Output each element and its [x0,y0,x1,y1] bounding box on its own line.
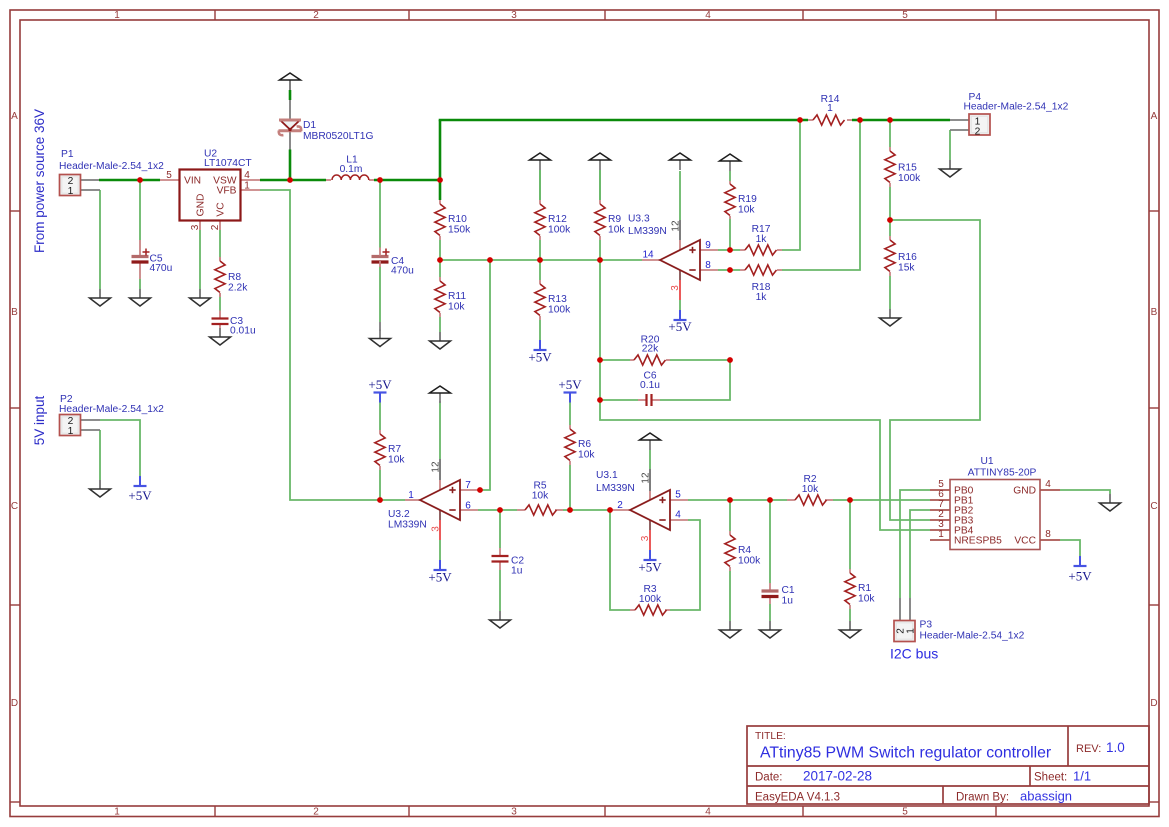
svg-text:C: C [11,501,18,512]
svg-text:R4: R4 [738,545,751,556]
svg-text:4: 4 [705,10,711,21]
svg-text:10k: 10k [448,302,465,313]
svg-text:12: 12 [641,472,652,484]
svg-text:10k: 10k [388,455,405,466]
svg-text:10k: 10k [858,594,875,605]
svg-text:U3.1: U3.1 [596,470,618,481]
svg-text:R1: R1 [858,583,871,594]
svg-text:U3.3: U3.3 [628,214,650,225]
svg-text:3: 3 [431,526,442,532]
svg-text:NRESPB5: NRESPB5 [954,536,1002,547]
svg-text:12: 12 [431,461,442,473]
svg-text:4: 4 [675,510,681,521]
svg-text:12: 12 [671,220,682,232]
svg-text:From power source 36V: From power source 36V [32,109,47,253]
svg-text:C1: C1 [782,585,795,596]
svg-text:1.0: 1.0 [1106,740,1125,755]
svg-text:2.2k: 2.2k [228,283,248,294]
svg-text:6: 6 [465,501,471,512]
svg-text:U1: U1 [980,456,993,467]
svg-text:470u: 470u [391,266,414,277]
svg-text:C: C [1150,501,1157,512]
svg-text:1k: 1k [756,234,768,245]
svg-text:P3: P3 [920,620,933,631]
svg-text:LM339N: LM339N [628,226,667,237]
svg-text:3: 3 [511,807,517,818]
svg-text:R16: R16 [898,252,917,263]
svg-text:5: 5 [902,10,908,21]
svg-text:Header-Male-2.54_1x2: Header-Male-2.54_1x2 [920,631,1025,642]
svg-text:Header-Male-2.54_1x2: Header-Male-2.54_1x2 [59,404,164,415]
svg-text:22k: 22k [642,344,659,355]
svg-text:Sheet:: Sheet: [1034,772,1067,784]
svg-text:+5V: +5V [1068,569,1092,584]
svg-text:B: B [11,307,18,318]
svg-text:7: 7 [465,480,471,491]
svg-text:R19: R19 [738,194,757,205]
svg-text:R8: R8 [228,272,241,283]
svg-text:3: 3 [511,10,517,21]
svg-text:2: 2 [617,500,623,511]
svg-text:R15: R15 [898,163,917,174]
svg-text:100k: 100k [639,594,662,605]
svg-text:R11: R11 [448,291,466,302]
svg-text:0.1u: 0.1u [640,380,660,391]
svg-text:GND: GND [196,194,207,217]
svg-text:LM339N: LM339N [388,520,427,531]
svg-text:4: 4 [705,807,711,818]
svg-text:2: 2 [210,224,221,230]
svg-text:8: 8 [705,260,711,271]
svg-text:100k: 100k [548,305,571,316]
svg-text:9: 9 [705,240,711,251]
svg-text:5V input: 5V input [32,395,47,445]
svg-text:4: 4 [1045,479,1051,490]
svg-text:+5V: +5V [638,560,662,575]
svg-text:15k: 15k [898,263,915,274]
svg-text:8: 8 [1045,529,1051,540]
svg-text:1u: 1u [511,566,523,577]
svg-text:VFB: VFB [217,186,237,197]
svg-text:1: 1 [938,529,944,540]
svg-text:2017-02-28: 2017-02-28 [803,769,872,784]
svg-text:10k: 10k [532,491,549,502]
svg-text:R7: R7 [388,444,401,455]
svg-text:D: D [11,698,18,709]
svg-text:EasyEDA V4.1.3: EasyEDA V4.1.3 [755,792,840,804]
svg-text:10k: 10k [608,225,625,236]
svg-text:B: B [1151,307,1158,318]
svg-text:100k: 100k [548,225,571,236]
svg-text:5: 5 [902,807,908,818]
svg-text:150k: 150k [448,225,471,236]
svg-text:ATtiny85 PWM Switch regulator: ATtiny85 PWM Switch regulator controller [760,745,1051,762]
svg-text:2: 2 [313,807,319,818]
svg-text:Drawn By:: Drawn By: [956,792,1009,804]
svg-text:R6: R6 [578,439,591,450]
svg-text:1: 1 [408,490,414,501]
svg-text:GND: GND [1013,486,1036,497]
svg-text:5: 5 [675,490,681,501]
svg-text:R13: R13 [548,294,567,305]
svg-text:I2C bus: I2C bus [890,646,938,662]
svg-text:Header-Male-2.54_1x2: Header-Male-2.54_1x2 [59,161,164,172]
svg-text:3: 3 [640,535,651,541]
svg-text:A: A [11,111,18,122]
svg-text:+5V: +5V [128,488,152,503]
svg-text:5: 5 [166,170,172,181]
svg-text:4: 4 [244,170,250,181]
svg-text:TITLE:: TITLE: [755,731,786,742]
svg-text:P1: P1 [61,149,74,160]
svg-text:1: 1 [68,426,74,437]
svg-text:3: 3 [670,285,681,291]
svg-text:R12: R12 [548,214,567,225]
svg-text:1: 1 [114,807,120,818]
svg-text:VC: VC [216,202,227,217]
svg-text:A: A [1151,111,1158,122]
svg-text:3: 3 [190,224,201,230]
svg-text:1: 1 [114,10,120,21]
svg-text:1: 1 [827,103,833,114]
svg-text:D1: D1 [303,120,316,131]
svg-text:1: 1 [906,628,917,634]
svg-text:+5V: +5V [668,319,692,334]
svg-text:1u: 1u [782,596,794,607]
svg-text:10k: 10k [802,484,819,495]
svg-text:+5V: +5V [368,377,392,392]
svg-text:0.1m: 0.1m [340,164,363,175]
svg-text:1/1: 1/1 [1073,769,1091,784]
svg-text:2: 2 [313,10,319,21]
svg-text:0.01u: 0.01u [230,326,256,337]
svg-text:470u: 470u [150,263,173,274]
svg-text:100k: 100k [738,556,761,567]
svg-text:abassign: abassign [1020,789,1072,804]
svg-text:Header-Male-2.54_1x2: Header-Male-2.54_1x2 [964,102,1069,113]
svg-text:1: 1 [244,181,250,192]
svg-text:MBR0520LT1G: MBR0520LT1G [303,131,373,142]
svg-text:2: 2 [975,127,981,138]
svg-text:VCC: VCC [1014,536,1036,547]
svg-text:U3.2: U3.2 [388,509,410,520]
svg-text:R10: R10 [448,214,467,225]
svg-text:100k: 100k [898,173,921,184]
svg-text:D: D [1150,698,1157,709]
svg-text:10k: 10k [738,205,755,216]
svg-text:10k: 10k [578,450,595,461]
svg-text:REV:: REV: [1076,743,1101,755]
svg-text:LM339N: LM339N [596,483,635,494]
svg-text:1: 1 [68,186,74,197]
svg-text:VIN: VIN [184,176,201,187]
svg-text:ATTINY85-20P: ATTINY85-20P [968,468,1037,479]
svg-text:Date:: Date: [755,772,783,784]
svg-text:+5V: +5V [428,570,452,585]
svg-text:14: 14 [642,250,654,261]
svg-text:R9: R9 [608,214,621,225]
svg-text:+5V: +5V [558,377,582,392]
svg-text:LT1074CT: LT1074CT [204,158,252,169]
svg-text:+5V: +5V [528,350,552,365]
svg-text:1k: 1k [756,292,768,303]
